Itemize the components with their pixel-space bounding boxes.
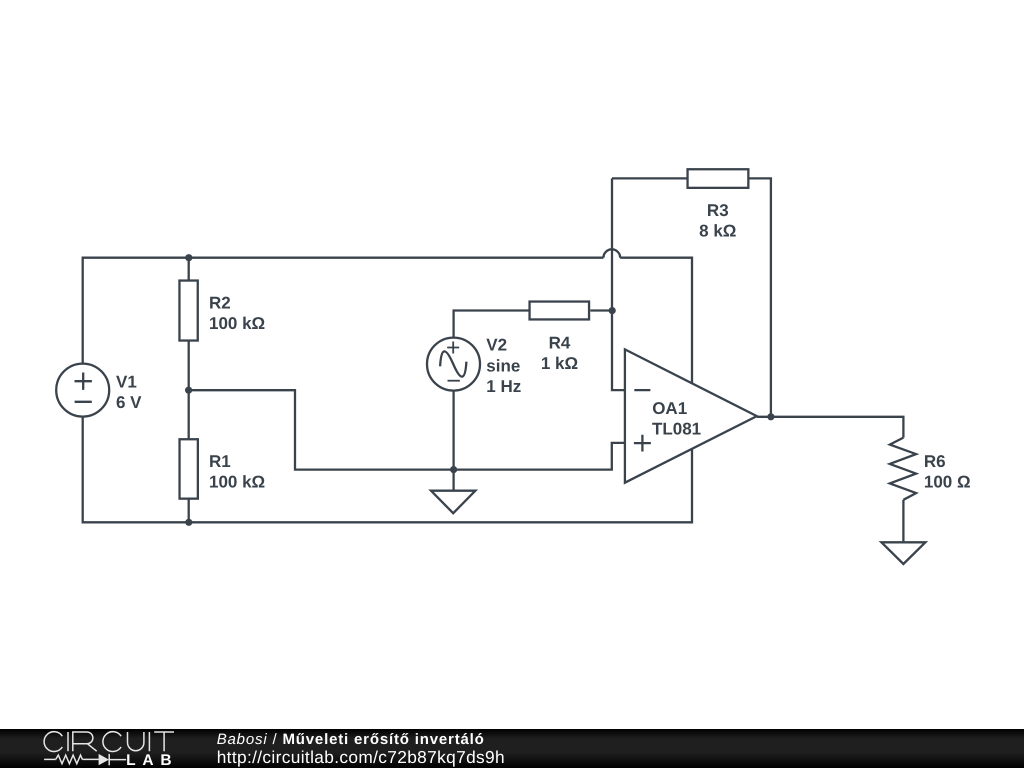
wire R4 right stub	[590, 309, 612, 311]
wire R2 top stub	[188, 258, 190, 281]
svg-text:V1: V1	[116, 373, 137, 392]
wire hop over vertical net at x=612	[603, 249, 620, 257]
svg-text:Babosi / Műveleti erősítő inve: Babosi / Műveleti erősítő invertáló	[217, 731, 485, 748]
svg-text:1 Hz: 1 Hz	[486, 377, 521, 396]
node dot top wire / R2	[185, 254, 192, 261]
resistor R6 zigzag	[890, 438, 916, 500]
node dot bottom wire / R1	[185, 519, 192, 526]
CircuitLab logo resistor-diode glyph	[44, 754, 126, 765]
wire from R1/R2 node right, down, along y=469 to op-amp + input	[189, 390, 625, 469]
V1 minus sign	[75, 401, 92, 403]
voltage source V2 circle	[427, 338, 480, 391]
node dot R4 / feedback net	[609, 307, 616, 314]
wire V2 top to R4 left	[454, 311, 530, 338]
svg-text:8 kΩ: 8 kΩ	[699, 221, 736, 240]
wire R2 bottom to R1/R2 node	[188, 340, 190, 440]
svg-text:R2: R2	[209, 293, 231, 312]
wire V2 bottom stub	[452, 391, 454, 470]
node dot output / R3	[767, 413, 774, 420]
V2 minus sign	[448, 380, 460, 382]
V2 sine squiggle	[438, 348, 469, 380]
CircuitLab logo CIRCUIT letters	[44, 732, 174, 752]
resistor R1 body	[180, 439, 198, 498]
CircuitLab logo diode triangle	[99, 754, 109, 765]
svg-text:TL081: TL081	[652, 419, 701, 438]
svg-text:OA1: OA1	[652, 399, 687, 418]
resistor R3 body	[688, 169, 749, 188]
wire top loop: left vertical, top horizontal to hop	[83, 258, 604, 364]
svg-text:V2: V2	[486, 336, 507, 355]
svg-text:100 kΩ: 100 kΩ	[209, 314, 265, 333]
svg-text:6 V: 6 V	[116, 393, 142, 412]
svg-text:LAB: LAB	[126, 752, 178, 768]
resistor R2 body	[179, 281, 197, 341]
svg-text:http://circuitlab.com/c72b87kq: http://circuitlab.com/c72b87kq7ds9h	[217, 747, 505, 767]
wire R6 bottom to ground	[902, 500, 904, 543]
resistor R4 body	[530, 302, 590, 320]
voltage source V1 circle	[56, 364, 109, 417]
wire op-amp output to R6 top	[757, 417, 904, 438]
wire vertical net x=612.5 from R3 left down to op-amp - input	[612, 178, 625, 390]
op-amp OA1 triangle	[625, 349, 757, 482]
svg-text:100 Ω: 100 Ω	[924, 473, 971, 492]
ground below R6	[881, 542, 925, 564]
ground below V2	[431, 491, 475, 514]
wire top right, right vertical x=692, bottom horizontal, left vertical lower	[83, 258, 692, 523]
svg-text:R6: R6	[924, 452, 946, 471]
svg-text:R3: R3	[707, 201, 729, 220]
op-amp inverting input minus sign	[634, 389, 650, 391]
svg-text:1 kΩ: 1 kΩ	[541, 354, 578, 373]
ground stub below V2	[452, 470, 454, 491]
svg-text:R1: R1	[209, 452, 231, 471]
svg-text:100 kΩ: 100 kΩ	[209, 473, 265, 492]
op-amp non-inverting input plus sign	[634, 435, 651, 452]
wire R3 left stub	[612, 177, 688, 179]
node dot V2 / ground	[450, 466, 457, 473]
svg-text:R4: R4	[549, 333, 571, 352]
V2 plus sign	[447, 342, 459, 354]
svg-text:sine: sine	[486, 356, 520, 375]
node dot R1/R2 junction	[185, 387, 192, 394]
wire R3 right, down to output node	[747, 178, 771, 416]
V1 plus sign	[75, 373, 92, 390]
wire R1 bottom stub	[188, 498, 190, 522]
